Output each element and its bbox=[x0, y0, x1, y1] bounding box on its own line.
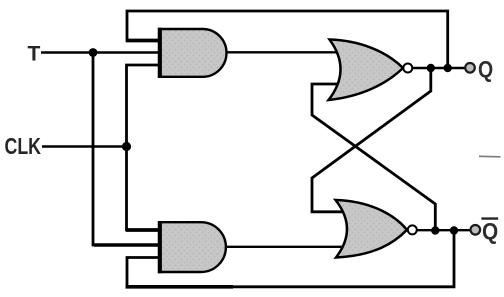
wire CLK riser up to top AND input 3 bbox=[127, 65, 164, 147]
svg-text:Q: Q bbox=[482, 218, 498, 244]
node Q junction 1 bbox=[427, 64, 435, 72]
wire top NOR output to Q terminal bbox=[412, 67, 469, 69]
wire cross-coupling Q to bottom NOR input 1 bbox=[312, 68, 431, 212]
wire T input horizontal bbox=[41, 51, 163, 53]
label Qbar overline bbox=[481, 217, 498, 219]
AND gate top (3-input) bbox=[159, 28, 226, 78]
NOR gate bottom (OR body) bbox=[336, 200, 408, 258]
wire bottom NOR output to Qbar terminal bbox=[417, 229, 475, 231]
NOR gate bottom inversion bubble bbox=[408, 225, 417, 234]
node Q junction 2 bbox=[444, 64, 452, 72]
wire thick segment of bottom loop bbox=[126, 285, 234, 289]
node Qbar junction 1 bbox=[431, 226, 439, 234]
wire cross-coupling Qbar to top NOR input 2 bbox=[312, 84, 435, 231]
NOR gate top (OR body) bbox=[329, 40, 404, 101]
NOR gate top inversion bubble bbox=[403, 64, 412, 73]
node Qbar junction 2 bbox=[450, 226, 458, 234]
wire bottom AND output to bottom NOR input 2 bbox=[225, 246, 346, 248]
node CLK junction bbox=[122, 142, 131, 151]
wire thick segment into bottom AND input 2 bbox=[94, 243, 163, 246]
svg-text:CLK: CLK bbox=[5, 133, 42, 159]
terminal Q bbox=[465, 63, 475, 73]
wire thick segment into bottom AND input 1 bbox=[126, 228, 163, 232]
svg-text:T: T bbox=[28, 42, 41, 65]
wire T riser down to bottom AND input 2 bbox=[93, 53, 163, 246]
stray gray dash right middle bbox=[479, 155, 501, 158]
wire CLK riser down to bottom AND input 1 bbox=[127, 147, 164, 231]
wire thick segment into top AND input 1 bbox=[126, 39, 163, 43]
AND gate bottom (3-input) bbox=[159, 221, 226, 273]
terminal Qbar bbox=[471, 225, 481, 235]
wire top AND output to top NOR input 1 bbox=[226, 51, 342, 53]
wire top feedback loop from Q node to top AND input 1 bbox=[127, 11, 448, 68]
wire bottom feedback loop from Qbar node to bottom AND input 3 bbox=[127, 231, 454, 287]
node T junction bbox=[89, 48, 98, 57]
svg-text:Q: Q bbox=[478, 56, 493, 82]
wire CLK input horizontal bbox=[42, 145, 127, 148]
